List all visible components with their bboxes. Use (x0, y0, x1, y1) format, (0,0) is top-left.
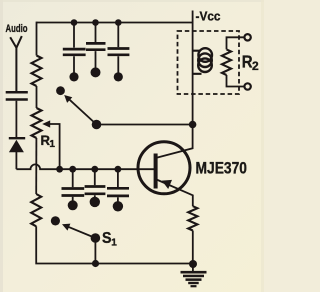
emitter arrowhead (162, 180, 172, 189)
wire R1 bottom to lower resistor (35, 138, 37, 194)
wire R1 wiper arm (46, 124, 60, 169)
node top cap1 junction (71, 19, 78, 26)
wire lower-left corner to bottom rail (36, 226, 193, 263)
node top cap3 junction (115, 19, 122, 26)
ground symbol (181, 264, 207, 287)
resistor (top left, unlabeled) (32, 56, 42, 87)
node ground junction (189, 260, 197, 268)
wire selector pivot to collector feed (97, 124, 193, 126)
selector contact dot (56, 86, 65, 95)
wire -Vcc feed line (192, 11, 194, 125)
diode (detector) (9, 137, 25, 152)
resistor (emitter, unlabeled) (188, 206, 197, 230)
wire top rail (37, 22, 193, 24)
wire left branch upper (36, 22, 38, 56)
wire base rail with hop over left branch (16, 164, 154, 169)
S1 contact dot (51, 216, 60, 225)
node bottom cap1 junction (69, 166, 76, 173)
relay dashed enclosure (178, 31, 240, 94)
svg-text:2: 2 (252, 59, 259, 73)
svg-text:MJE370: MJE370 (196, 159, 248, 178)
capacitor (bottom bank 3) (107, 169, 129, 211)
potentiometer R1 (32, 108, 42, 138)
relay coil loop 1 (198, 48, 212, 62)
relay coil loop 3 (198, 58, 212, 72)
selector pivot dot (92, 120, 102, 130)
svg-text:1: 1 (111, 237, 117, 248)
relay coil loop 2 (198, 53, 212, 67)
selector arrowhead (64, 95, 72, 103)
svg-text:S: S (102, 230, 112, 247)
svg-text:-Vcc: -Vcc (196, 8, 221, 23)
wiper arrowhead (42, 120, 50, 127)
svg-text:1: 1 (49, 139, 55, 150)
transistor emitter lead (157, 180, 193, 207)
node bottom cap2 junction (91, 166, 98, 173)
wire between resistors (36, 86, 38, 108)
switch S1 arm (66, 226, 96, 238)
node bottom cap3 junction (115, 166, 122, 173)
node wiper junction (56, 166, 63, 173)
S1 pivot dot (91, 233, 101, 243)
capacitor (top bank 3) (108, 23, 130, 82)
node S1 junction (92, 260, 99, 267)
terminal bottom (244, 83, 250, 89)
resistor (lower left, unlabeled) (31, 194, 41, 226)
capacitor (bottom bank 2) (85, 169, 106, 207)
switch (capacitor selector) arm (68, 98, 97, 125)
capacitor (bottom bank 1) (62, 169, 85, 210)
transistor collector lead (157, 125, 193, 158)
resistor R2 (222, 49, 231, 75)
node collector feed junction (189, 121, 197, 129)
wire emitter resistor to ground rail (192, 231, 194, 265)
capacitor (antenna coupling, unlabeled) (6, 92, 28, 99)
wire S1 pivot to bottom rail (94, 238, 96, 264)
wire diode to base rail corner (15, 152, 17, 169)
terminal top (244, 34, 250, 40)
S1 arrowhead (62, 224, 70, 231)
transistor Q1 body (138, 142, 190, 194)
wire R2 top to terminal (227, 37, 245, 49)
capacitor (top bank 2) (86, 23, 106, 78)
antenna audio input (10, 36, 22, 91)
relay coil stubs (193, 51, 202, 74)
transistor base bar (154, 154, 158, 189)
wire R2 bottom to terminal (227, 75, 245, 87)
node top cap2 junction (92, 19, 99, 26)
capacitor (top bank 1) (63, 23, 86, 82)
svg-text:Audio: Audio (6, 23, 28, 35)
wire cap to diode (15, 101, 17, 137)
